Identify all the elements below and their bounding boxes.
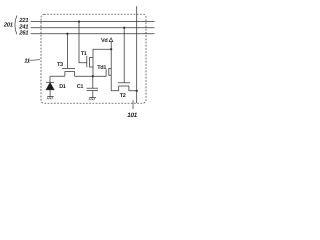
- node dot on 261 at T3 gate feed: [66, 33, 68, 35]
- row line 221: [31, 21, 155, 23]
- svg-text:Td1: Td1: [97, 65, 106, 71]
- node dot on 241 at T2 gate feed: [123, 27, 125, 29]
- svg-text:221: 221: [18, 17, 28, 24]
- label Td1: [97, 65, 106, 71]
- node dot storage node: [92, 75, 94, 77]
- svg-text:Vd: Vd: [101, 38, 107, 44]
- transistor T1: [87, 49, 93, 76]
- svg-text:T2: T2: [120, 93, 126, 99]
- vertical sense line: [136, 6, 138, 103]
- svg-text:C1: C1: [77, 84, 84, 90]
- label 241: [18, 23, 28, 30]
- label T2: [120, 93, 126, 99]
- supply Vd symbol: [109, 38, 113, 49]
- pixel boundary dashed box 11: [41, 14, 146, 103]
- label C1: [77, 84, 84, 90]
- leader line for 11: [29, 59, 40, 62]
- svg-text:241: 241: [18, 23, 28, 30]
- label 201: [3, 22, 13, 29]
- node dot Vd node: [110, 48, 112, 50]
- node wire: T3 source to photodiode: [50, 75, 65, 77]
- label 11: [24, 58, 30, 65]
- svg-text:201: 201: [3, 22, 13, 29]
- photodiode D1: [46, 76, 54, 96]
- svg-text:11: 11: [24, 58, 30, 65]
- svg-text:T1: T1: [81, 51, 87, 57]
- row line 241: [31, 27, 155, 29]
- svg-text:D1: D1: [59, 84, 66, 90]
- node wire: T3 drain to Td1 gate: [75, 75, 107, 77]
- svg-text:261: 261: [18, 29, 28, 36]
- capacitor C1: [87, 76, 99, 97]
- transistor T3: [62, 68, 75, 76]
- wire: T1 drain to Vd node: [93, 48, 111, 50]
- wire: gate feed T3 from line 261: [66, 34, 68, 69]
- svg-text:101: 101: [127, 112, 138, 119]
- svg-text:T3: T3: [57, 62, 63, 68]
- ground under C1: [89, 98, 96, 101]
- label 261: [18, 29, 28, 36]
- label 101: [127, 112, 138, 119]
- transistor T2: [111, 83, 137, 91]
- wire: gate feed T1 from line 221: [79, 22, 87, 63]
- wire: gate feed T2 from line 241: [123, 28, 125, 83]
- label D1: [59, 84, 66, 90]
- label Vd: [101, 38, 107, 44]
- leader line for 101: [132, 100, 134, 109]
- transistor Td1: [106, 49, 111, 91]
- row line 261: [31, 33, 155, 35]
- node dot on 221 at T1 gate feed: [78, 21, 80, 23]
- label 221: [18, 17, 28, 24]
- brace for 201 group: [15, 16, 17, 35]
- label T3: [57, 62, 63, 68]
- ground under D1: [47, 97, 54, 100]
- node dot T2 drain on sense line: [136, 90, 138, 92]
- label T1: [81, 51, 87, 57]
